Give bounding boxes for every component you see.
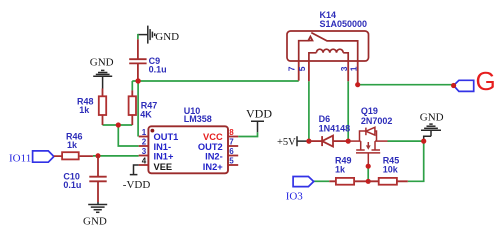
label R48 value: [77, 97, 94, 115]
svg-text:2N7002: 2N7002: [361, 116, 393, 126]
capacitor C10: [89, 156, 106, 202]
power VDD: [246, 107, 272, 133]
port IO3: [293, 177, 314, 187]
svg-text:OUT2: OUT2: [198, 142, 223, 152]
svg-text:S1A050000: S1A050000: [320, 19, 368, 29]
junction node B (R46/C10/IN1+): [96, 153, 101, 158]
pin 3 IN1+: [139, 147, 174, 162]
svg-text:1k: 1k: [335, 165, 346, 175]
svg-text:IN1+: IN1+: [154, 151, 174, 161]
svg-text:2: 2: [142, 137, 147, 146]
wire: Q19 source to GND node: [388, 140, 424, 142]
junction node A (C9/R47/OUT1): [135, 78, 140, 83]
junction Q19 gate: [366, 164, 371, 169]
label U10 LM358: [184, 106, 212, 124]
power -VDD (VEE): [123, 165, 151, 191]
wire: R48 bottom to R47 bottom: [103, 124, 133, 126]
junction D6/Q19/relay pin3: [346, 139, 351, 144]
svg-text:G: G: [476, 66, 496, 96]
Q19 arrow: [366, 145, 371, 149]
svg-text:1N4148: 1N4148: [319, 123, 351, 133]
wire: link down to R47 top: [131, 81, 133, 90]
label GND (top): [155, 31, 179, 43]
junction +5V node: [306, 139, 311, 144]
svg-text:VEE: VEE: [154, 162, 173, 172]
svg-text:4K: 4K: [140, 110, 152, 120]
svg-text:4: 4: [142, 156, 147, 165]
pin number 3 (relay): [339, 66, 349, 71]
svg-text:7: 7: [229, 137, 234, 146]
wire: IO3 port to R49: [314, 180, 330, 182]
svg-text:GND: GND: [83, 216, 107, 228]
svg-text:3: 3: [142, 147, 147, 156]
junction relay pin1 / G wire: [355, 82, 360, 87]
svg-text:GND: GND: [155, 31, 179, 43]
svg-text:GND: GND: [420, 112, 444, 124]
op-amp U10 LM358: [148, 126, 228, 173]
capacitor C9: [129, 39, 146, 81]
svg-text:OUT1: OUT1: [154, 132, 179, 142]
ground GND (above R48): [93, 70, 112, 88]
resistor R47: [129, 90, 136, 125]
label IO11: [9, 153, 31, 165]
svg-text:7: 7: [287, 66, 297, 71]
svg-text:VDD: VDD: [246, 107, 272, 121]
svg-text:1k: 1k: [67, 140, 78, 150]
svg-text:1: 1: [142, 128, 147, 137]
svg-text:IO3: IO3: [286, 191, 304, 203]
svg-text:10k: 10k: [383, 165, 399, 175]
svg-text:+5V: +5V: [277, 137, 296, 148]
svg-text:5: 5: [297, 66, 307, 71]
label C10 value: [63, 171, 81, 189]
svg-text:Q19: Q19: [361, 106, 378, 116]
label GND (below C10): [83, 216, 107, 228]
label R45 value: [383, 156, 400, 175]
ground GND (right, at Q19 source): [421, 124, 441, 140]
label K14 S1A050000: [320, 10, 368, 29]
pin 4 VEE: [139, 156, 172, 172]
svg-text:IN1-: IN1-: [154, 142, 172, 152]
svg-text:1: 1: [349, 66, 359, 71]
pin number 1 (relay): [349, 66, 359, 71]
pin 2 IN1-: [139, 137, 171, 152]
svg-text:-VDD: -VDD: [123, 179, 151, 191]
svg-text:3: 3: [339, 66, 349, 71]
port IO11: [33, 151, 54, 162]
pin 7 OUT2: [198, 137, 238, 152]
svg-text:5: 5: [229, 156, 234, 165]
wire: relay pin5 down to +5V node: [308, 81, 310, 141]
port G: [454, 80, 474, 91]
wire: relay pin3 down to D6/Q19 node: [347, 81, 349, 141]
diode D6 1N4148: [309, 136, 348, 147]
label D6 1N4148: [319, 114, 351, 133]
label Q19 2N7002: [361, 106, 393, 126]
label R46 value: [66, 132, 83, 151]
svg-text:6: 6: [229, 147, 234, 156]
label R49 value: [335, 156, 352, 175]
junction GND node: [421, 139, 426, 144]
pin number 7 (relay): [287, 66, 297, 71]
svg-text:0.1u: 0.1u: [149, 64, 167, 74]
junction R49/R45/gate: [366, 179, 371, 184]
junction node feedback (R48/R47): [116, 122, 121, 127]
transistor Q19 2N7002: [348, 127, 387, 166]
svg-text:GND: GND: [90, 57, 114, 69]
resistor R46: [54, 152, 93, 159]
resistor R48: [99, 89, 106, 126]
wire: relay pin1 to port G: [358, 84, 454, 86]
wire: node A to relay pin7 (long top wire): [132, 80, 298, 82]
svg-text:1k: 1k: [79, 105, 90, 115]
svg-text:IO11: IO11: [9, 153, 31, 165]
label R47 value: [140, 101, 157, 120]
relay pin leads: [299, 61, 358, 85]
wire: pin8 VCC to VDD: [238, 132, 257, 136]
label GND (right): [420, 112, 444, 124]
junction port G: [451, 83, 456, 88]
pin number 5 (relay): [297, 66, 307, 71]
label C9 value: [149, 56, 167, 74]
wire: OUT1 pin1 drop from top wire: [137, 81, 139, 137]
svg-text:0.1u: 0.1u: [63, 180, 81, 190]
relay K14: [287, 31, 369, 61]
wire: feedback node down to IN1- (pin2): [118, 125, 138, 146]
resistor R45: [368, 178, 408, 185]
pin 6 IN2-: [205, 147, 238, 162]
power +5V: [277, 136, 309, 148]
label IO3: [286, 191, 304, 203]
pin 5 IN2+: [203, 156, 238, 172]
svg-text:IN2-: IN2-: [205, 151, 223, 161]
svg-text:LM358: LM358: [184, 114, 212, 124]
label G: [476, 66, 496, 96]
wire: Q19 gate down to R49/R45 node: [367, 166, 369, 181]
wire: GND node down to R45 right: [408, 141, 424, 181]
wire: R46 node to IN1+ (pin3): [93, 155, 139, 157]
wire: green stub at C9 top: [137, 34, 139, 39]
pin 8 VCC: [203, 128, 238, 142]
svg-text:VCC: VCC: [203, 132, 223, 142]
pin 1 OUT1: [139, 128, 179, 142]
svg-text:IN2+: IN2+: [203, 162, 223, 172]
ground GND (below C10): [88, 202, 107, 212]
label GND (above R48): [90, 57, 114, 69]
svg-text:8: 8: [229, 128, 234, 137]
resistor R49: [329, 178, 368, 185]
ground GND (sideways, above C9): [138, 26, 155, 44]
